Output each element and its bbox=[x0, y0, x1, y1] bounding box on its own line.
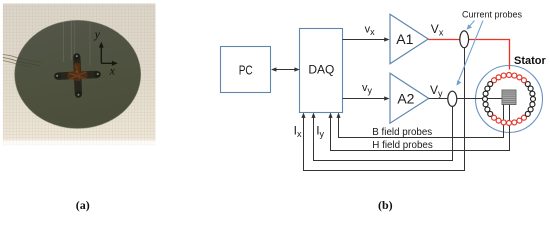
PC-DAQ double arrow bbox=[271, 67, 300, 71]
sample cross horizontal arm bbox=[56, 71, 98, 80]
op-amp A1 bbox=[390, 14, 428, 64]
wire B field probes bbox=[336, 105, 503, 138]
PC box bbox=[221, 47, 271, 93]
svg-text:Ix: Ix bbox=[294, 124, 302, 140]
stator core (square) bbox=[502, 90, 516, 105]
svg-text:(a): (a) bbox=[76, 198, 90, 212]
annotation arrow to probe 2 bbox=[457, 21, 484, 86]
svg-text:Stator: Stator bbox=[514, 55, 547, 67]
wire Ix: probe1 to DAQ bbox=[301, 48, 464, 171]
wire DAQ to A1 bbox=[343, 37, 390, 41]
svg-text:(b): (b) bbox=[378, 198, 393, 212]
svg-text:A2: A2 bbox=[397, 91, 414, 107]
photo axis y arrow bbox=[99, 42, 118, 66]
red wire A1 to stator bbox=[428, 40, 509, 70]
svg-text:Iy: Iy bbox=[316, 124, 324, 140]
wire A2 to stator core bbox=[429, 98, 502, 100]
annotation arrow to probe 1 bbox=[467, 21, 475, 30]
strings over disc bbox=[63, 21, 90, 66]
DAQ box bbox=[300, 29, 343, 113]
lead wires over disc bbox=[17, 58, 42, 67]
wire DAQ to A2 bbox=[343, 96, 390, 100]
current probe 2 bbox=[448, 91, 457, 106]
stator winding dots bbox=[483, 73, 536, 126]
svg-text:B field probes: B field probes bbox=[372, 127, 432, 138]
stator outer circle bbox=[476, 66, 543, 133]
svg-text:vx: vx bbox=[365, 24, 376, 37]
wire Iy: probe2 to DAQ bbox=[311, 106, 452, 160]
lead wires left of disc bbox=[3, 55, 18, 65]
current probe 1 bbox=[460, 31, 469, 48]
svg-text:Vy: Vy bbox=[430, 83, 443, 99]
svg-text:H field probes: H field probes bbox=[372, 140, 433, 151]
sample cross (stator sheet with windings) bbox=[53, 52, 102, 99]
op-amp A2 bbox=[390, 73, 429, 123]
arm end fittings bbox=[53, 52, 102, 99]
disc (stator sample) bbox=[15, 20, 141, 128]
svg-text:x: x bbox=[109, 66, 116, 78]
svg-text:Vx: Vx bbox=[431, 22, 444, 38]
sample cross vertical arm bbox=[73, 55, 82, 95]
copper windings bbox=[67, 63, 88, 82]
svg-text:vy: vy bbox=[362, 82, 373, 95]
svg-text:DAQ: DAQ bbox=[308, 63, 334, 77]
photo background paper bbox=[3, 4, 156, 146]
svg-text:A1: A1 bbox=[396, 31, 413, 47]
svg-text:Current probes: Current probes bbox=[462, 10, 523, 20]
wire H field probes bbox=[328, 105, 509, 151]
photo axis x arrow bbox=[101, 62, 113, 64]
svg-text:y: y bbox=[94, 29, 101, 41]
svg-text:PC: PC bbox=[239, 64, 253, 78]
